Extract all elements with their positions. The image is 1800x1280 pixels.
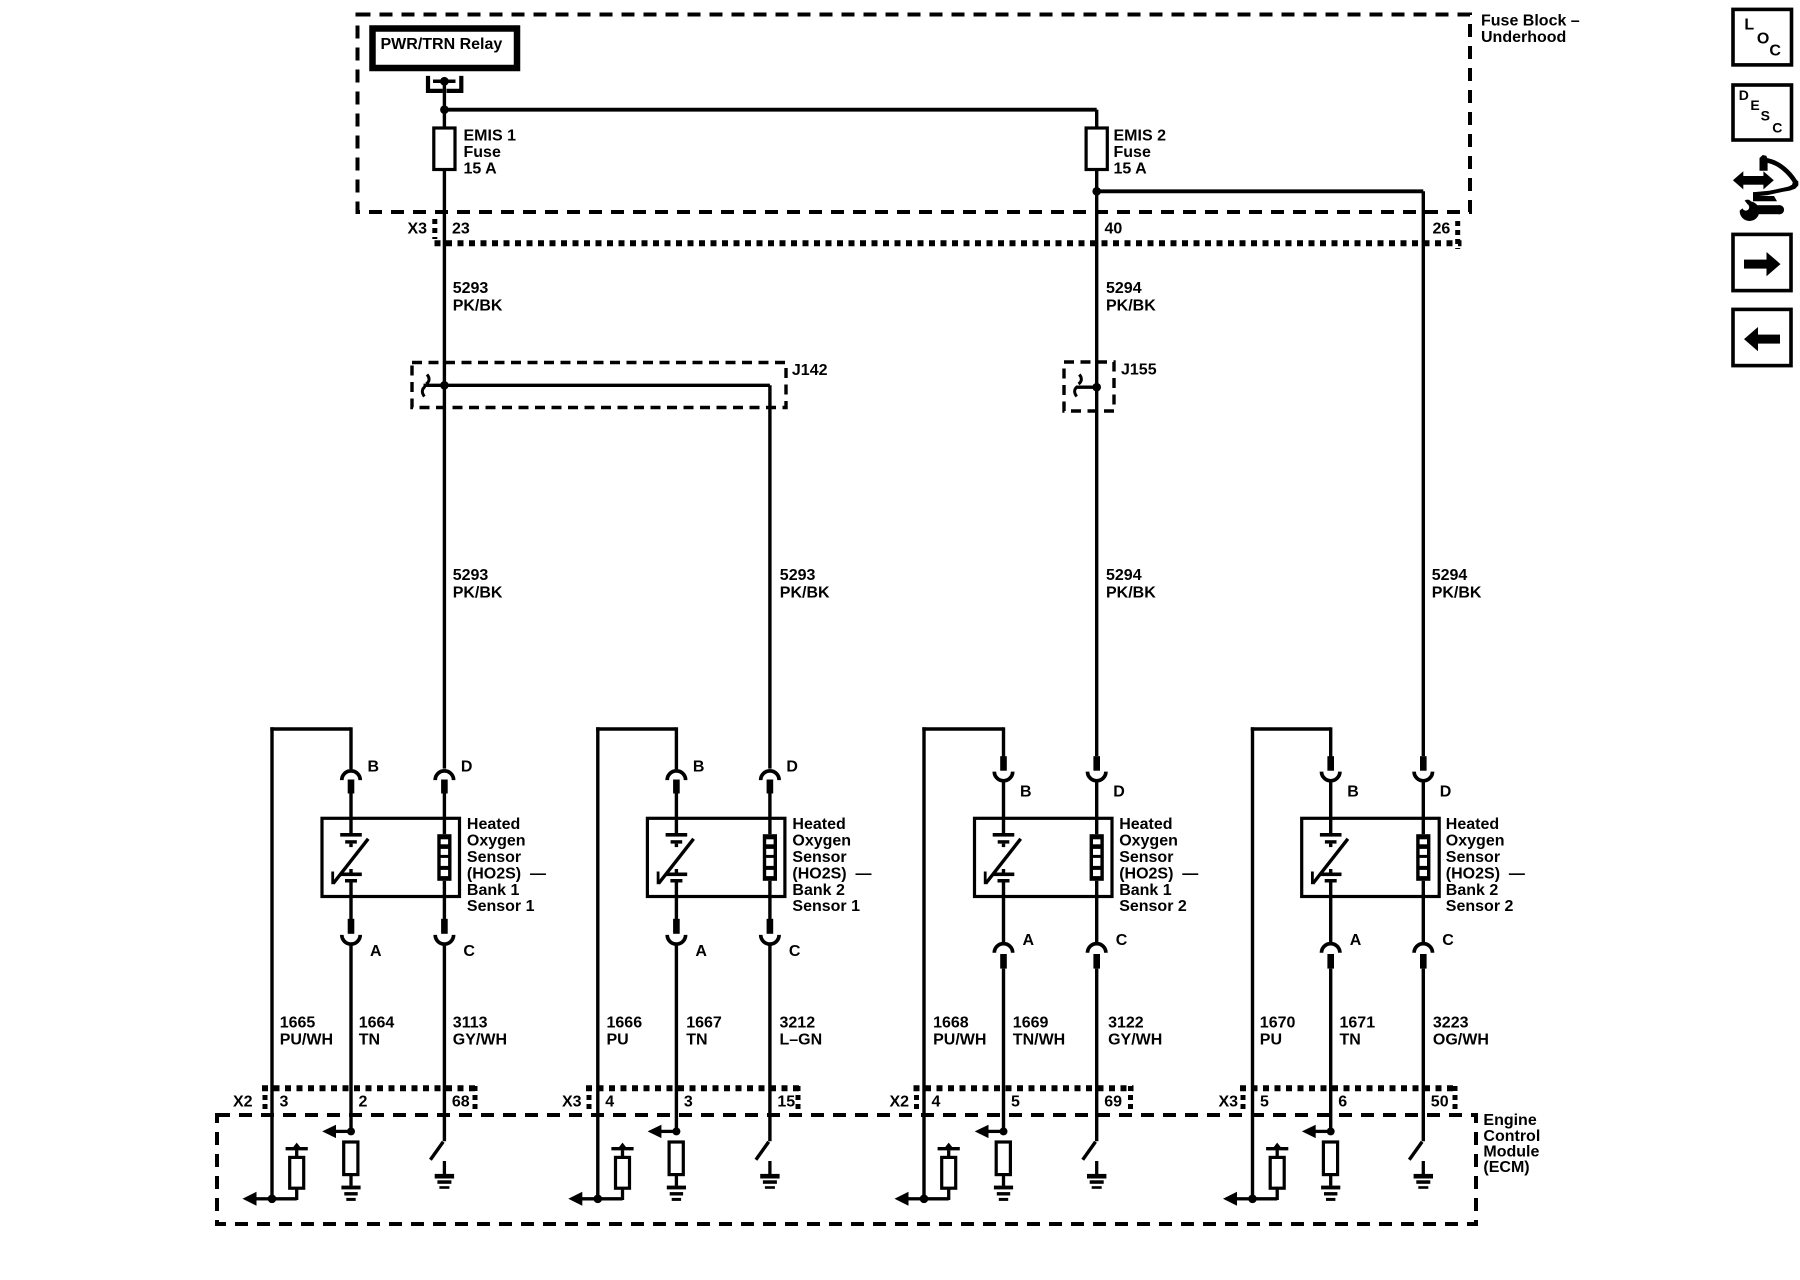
ground symbol 2: [760, 1174, 779, 1179]
svg-text:C: C: [1442, 932, 1454, 949]
svg-text:5: 5: [1011, 1094, 1020, 1111]
svg-text:EMIS 1: EMIS 1: [464, 128, 517, 145]
svg-text:Oxygen: Oxygen: [467, 833, 526, 850]
svg-text:GY/WH: GY/WH: [453, 1031, 507, 1048]
svg-text:Sensor: Sensor: [1446, 849, 1500, 866]
heater element sensor 2: [658, 818, 694, 919]
heater element sensor 3: [985, 818, 1021, 943]
svg-text:(HO2S) —: (HO2S) —: [1119, 865, 1198, 882]
svg-text:(HO2S) —: (HO2S) —: [467, 865, 546, 882]
ground symbol 2: [1087, 1174, 1106, 1179]
wire to pin B sensor 2: [675, 727, 678, 769]
wire branch to X3-26: [1097, 189, 1424, 193]
heater element sensor 4: [1312, 818, 1348, 943]
svg-text:4: 4: [605, 1094, 614, 1111]
svg-text:PK/BK: PK/BK: [453, 584, 503, 601]
svg-text:X2: X2: [233, 1094, 253, 1111]
svg-text:(HO2S) —: (HO2S) —: [1446, 865, 1525, 882]
signal arrow left: [243, 1192, 273, 1206]
connector pin B sensor 2: [667, 771, 685, 818]
svg-text:1668: 1668: [933, 1014, 969, 1031]
relay K PWR/TRN Relay: [373, 29, 518, 69]
svg-text:Fuse Block –: Fuse Block –: [1481, 13, 1580, 30]
svg-text:Bank 1: Bank 1: [1119, 882, 1172, 899]
node ECM junction: [594, 1195, 603, 1204]
svg-text:J155: J155: [1121, 362, 1157, 379]
svg-text:5: 5: [1260, 1094, 1269, 1111]
resistor to ground: [1323, 1142, 1337, 1186]
svg-text:(HO2S) —: (HO2S) —: [792, 865, 871, 882]
splice J142 clip: [422, 375, 429, 397]
connector pin A sensor 3: [994, 944, 1012, 1132]
svg-text:TN: TN: [359, 1031, 380, 1048]
node junction below EMIS 2 fuse: [1092, 187, 1101, 196]
svg-text:Fuse: Fuse: [464, 144, 501, 161]
switch blade: [1409, 1142, 1422, 1160]
sensor box HO2S 3: [975, 818, 1113, 896]
sensor box HO2S 2: [647, 818, 785, 896]
wire to pin B sensor 4: [1329, 727, 1332, 756]
connector separator dots right: [1455, 221, 1460, 249]
icon service hand with wrench: [1733, 155, 1799, 221]
svg-text:5293: 5293: [453, 567, 489, 584]
svg-text:50: 50: [1431, 1094, 1449, 1111]
pull-up resistor: [924, 1143, 960, 1200]
svg-text:Oxygen: Oxygen: [1446, 833, 1505, 850]
svg-text:A: A: [370, 943, 382, 960]
wire splice to junction: [424, 384, 445, 387]
svg-text:B: B: [1347, 784, 1359, 801]
wire J142 branch to sensor 2 pin D: [444, 385, 770, 768]
connector pin B sensor 4: [1322, 756, 1340, 818]
svg-text:Heated: Heated: [792, 816, 845, 833]
connector pin C sensor 3: [1088, 944, 1106, 1142]
wire relay to junction: [443, 85, 446, 110]
svg-text:TN: TN: [686, 1031, 707, 1048]
ground stub: [768, 1161, 771, 1174]
svg-text:C: C: [789, 943, 801, 960]
svg-text:Sensor 2: Sensor 2: [1446, 898, 1514, 915]
wire loop top sensor 3: [922, 727, 1003, 731]
pull-up resistor: [272, 1143, 308, 1200]
svg-text:Heated: Heated: [467, 816, 520, 833]
svg-text:Sensor 1: Sensor 1: [467, 898, 535, 915]
splice J142 box: [412, 363, 786, 408]
wire down X3-26 to sensor 4 pin D: [1422, 191, 1425, 756]
ground stub: [1422, 1161, 1425, 1174]
node ECM junction: [1248, 1195, 1257, 1204]
wire loop left sensor 2 to ECM: [596, 727, 599, 1199]
node J155 junction: [1092, 383, 1101, 392]
signal arrow left: [1223, 1192, 1253, 1206]
svg-text:Control: Control: [1483, 1128, 1540, 1145]
wire loop top sensor 2: [596, 727, 676, 731]
svg-text:Sensor: Sensor: [792, 849, 846, 866]
svg-text:Sensor: Sensor: [467, 849, 521, 866]
splice J155 clip: [1075, 375, 1082, 397]
svg-text:1664: 1664: [359, 1014, 395, 1031]
svg-text:1669: 1669: [1013, 1014, 1049, 1031]
ground symbol 2: [435, 1174, 454, 1179]
svg-text:X2: X2: [890, 1094, 910, 1111]
sensing element sensor 2: [763, 818, 777, 919]
svg-text:6: 6: [1338, 1094, 1347, 1111]
ground symbol: [667, 1186, 686, 1190]
icon DESC box: [1733, 85, 1792, 140]
svg-text:PK/BK: PK/BK: [780, 584, 830, 601]
wire J155 stub: [1077, 386, 1097, 389]
svg-text:PK/BK: PK/BK: [1106, 584, 1156, 601]
svg-text:3: 3: [684, 1094, 693, 1111]
pull-up resistor: [598, 1143, 634, 1200]
svg-text:4: 4: [932, 1094, 941, 1111]
splice J155 box: [1064, 362, 1114, 411]
ECM connector X3 dotted band: [1240, 1086, 1458, 1113]
resistor to ground: [669, 1142, 683, 1186]
svg-text:PK/BK: PK/BK: [1106, 298, 1156, 315]
svg-text:A: A: [1350, 932, 1362, 949]
svg-text:E: E: [1750, 97, 1759, 113]
svg-text:B: B: [368, 759, 380, 776]
wire loop left sensor 1 to ECM: [270, 727, 273, 1199]
svg-text:PU: PU: [607, 1031, 629, 1048]
wire down X3-40 to sensor 3 pin D: [1095, 193, 1098, 756]
svg-text:1666: 1666: [607, 1014, 643, 1031]
ECM connector X3 dotted band: [586, 1086, 801, 1113]
svg-text:Bank 2: Bank 2: [1446, 882, 1499, 899]
relay pin bracket: [428, 76, 461, 91]
connector pin D sensor 4: [1414, 756, 1432, 818]
wire EMIS 2 fuse to junction: [1095, 170, 1098, 192]
sensor box HO2S 4: [1302, 818, 1440, 896]
connector X3 separator dots: [432, 219, 437, 239]
svg-text:Bank 1: Bank 1: [467, 882, 520, 899]
connector pin D sensor 1: [435, 771, 453, 818]
ground symbol 2: [1414, 1174, 1433, 1179]
svg-text:Heated: Heated: [1119, 816, 1172, 833]
ECM connector X2 dotted band: [914, 1086, 1134, 1113]
icon arrow right box: [1733, 234, 1791, 290]
svg-text:PU/WH: PU/WH: [933, 1031, 986, 1048]
svg-text:PU/WH: PU/WH: [280, 1031, 333, 1048]
svg-text:2: 2: [359, 1094, 368, 1111]
switch blade: [430, 1142, 443, 1160]
svg-text:D: D: [1113, 784, 1125, 801]
svg-text:5293: 5293: [780, 567, 816, 584]
resistor to ground: [344, 1142, 358, 1186]
svg-text:TN/WH: TN/WH: [1013, 1031, 1065, 1048]
node ECM junction: [920, 1195, 929, 1204]
svg-text:3212: 3212: [780, 1014, 816, 1031]
svg-text:B: B: [693, 759, 705, 776]
svg-text:PK/BK: PK/BK: [1432, 584, 1482, 601]
svg-text:C: C: [463, 943, 475, 960]
svg-text:D: D: [786, 759, 798, 776]
connector pin D sensor 3: [1088, 756, 1106, 818]
connector pin C sensor 2: [761, 919, 779, 1141]
svg-text:3223: 3223: [1433, 1014, 1469, 1031]
svg-text:5293: 5293: [453, 280, 489, 297]
svg-text:1670: 1670: [1260, 1014, 1296, 1031]
wire busbar down to EMIS 2 fuse: [1095, 110, 1098, 129]
switch blade: [1083, 1142, 1096, 1160]
svg-text:40: 40: [1105, 221, 1123, 238]
sensor box HO2S 1: [322, 818, 460, 896]
svg-text:O: O: [1757, 31, 1769, 48]
svg-text:D: D: [1440, 784, 1452, 801]
icon arrow left box: [1733, 309, 1791, 365]
heater element sensor 1: [333, 818, 369, 919]
svg-text:X3: X3: [408, 221, 428, 238]
ground stub: [1095, 1161, 1098, 1174]
signal arrow left 2: [648, 1125, 681, 1138]
connector pin A sensor 2: [667, 919, 685, 1132]
node J142 junction: [440, 381, 449, 390]
signal arrow left: [895, 1192, 925, 1206]
sensing element sensor 3: [1090, 818, 1104, 943]
svg-text:Oxygen: Oxygen: [792, 833, 851, 850]
svg-text:PU: PU: [1260, 1031, 1282, 1048]
svg-text:Oxygen: Oxygen: [1119, 833, 1178, 850]
svg-text:1667: 1667: [686, 1014, 722, 1031]
sensing element sensor 4: [1416, 818, 1430, 943]
connector pin C sensor 4: [1414, 944, 1432, 1142]
fuse EMIS 2 15A: [1086, 128, 1107, 170]
wire to pin B sensor 1: [349, 727, 352, 769]
svg-text:69: 69: [1104, 1094, 1122, 1111]
svg-text:C: C: [1116, 932, 1128, 949]
svg-text:15 A: 15 A: [464, 161, 498, 178]
connector pin B sensor 3: [994, 756, 1012, 818]
fuse EMIS 1 15A: [434, 128, 455, 170]
svg-text:15 A: 15 A: [1114, 161, 1148, 178]
wire junction to EMIS 1 fuse: [443, 110, 446, 129]
svg-text:A: A: [695, 943, 707, 960]
signal arrow left 2: [322, 1125, 355, 1138]
icon LOC box: [1733, 9, 1792, 65]
node ECM junction: [268, 1195, 277, 1204]
wire loop top sensor 1: [270, 727, 351, 731]
fuse block box (Fuse Block - Underhood): [358, 15, 1471, 213]
svg-text:S: S: [1761, 107, 1770, 123]
svg-text:J142: J142: [792, 362, 828, 379]
sensing element sensor 1: [437, 818, 451, 919]
svg-text:PK/BK: PK/BK: [453, 298, 503, 315]
svg-text:1671: 1671: [1340, 1014, 1376, 1031]
ground symbol: [341, 1186, 360, 1190]
wire busbar to EMIS 2 fuse: [444, 108, 1096, 112]
wire loop top sensor 4: [1251, 727, 1331, 731]
connector pin D sensor 2: [761, 771, 779, 818]
fuse block connector dotted edge: [435, 240, 1462, 246]
pull-up resistor: [1253, 1143, 1289, 1200]
svg-text:X3: X3: [562, 1094, 582, 1111]
svg-text:26: 26: [1433, 221, 1451, 238]
wire to pin B sensor 3: [1002, 727, 1005, 756]
svg-text:3113: 3113: [453, 1014, 488, 1031]
svg-text:A: A: [1023, 932, 1035, 949]
svg-text:C: C: [1772, 120, 1782, 136]
ground symbol: [994, 1186, 1013, 1190]
svg-text:1665: 1665: [280, 1014, 316, 1031]
svg-text:5294: 5294: [1106, 567, 1142, 584]
svg-text:5294: 5294: [1106, 280, 1142, 297]
svg-text:Sensor: Sensor: [1119, 849, 1173, 866]
svg-text:Engine: Engine: [1483, 1112, 1536, 1129]
svg-text:D: D: [1739, 87, 1749, 103]
svg-text:C: C: [1769, 42, 1781, 59]
svg-text:EMIS 2: EMIS 2: [1114, 128, 1167, 145]
svg-text:Fuse: Fuse: [1114, 144, 1151, 161]
svg-text:23: 23: [452, 221, 470, 238]
signal arrow left 2: [1302, 1125, 1335, 1138]
svg-text:L: L: [1744, 16, 1754, 33]
wire EMIS 1 fuse to sensor 1 pin D: [443, 170, 446, 769]
connector pin A sensor 1: [342, 919, 360, 1132]
svg-text:X3: X3: [1219, 1094, 1239, 1111]
svg-text:TN: TN: [1340, 1031, 1361, 1048]
connector pin B sensor 1: [342, 771, 360, 818]
ECM connector X2 dotted band: [262, 1086, 478, 1113]
svg-text:D: D: [461, 759, 473, 776]
svg-text:L–GN: L–GN: [780, 1031, 823, 1048]
svg-text:Underhood: Underhood: [1481, 29, 1566, 46]
ECM box (Engine Control Module): [217, 1115, 1476, 1224]
svg-text:Heated: Heated: [1446, 816, 1499, 833]
resistor to ground: [996, 1142, 1010, 1186]
svg-text:3122: 3122: [1108, 1014, 1144, 1031]
svg-text:3: 3: [280, 1094, 289, 1111]
connector pin C sensor 1: [435, 919, 453, 1141]
signal arrow left 2: [975, 1125, 1008, 1138]
svg-text:5294: 5294: [1432, 567, 1468, 584]
svg-text:Sensor 2: Sensor 2: [1119, 898, 1187, 915]
ground symbol: [1321, 1186, 1340, 1190]
wire loop left sensor 3 to ECM: [922, 727, 925, 1199]
svg-text:68: 68: [452, 1094, 470, 1111]
svg-text:GY/WH: GY/WH: [1108, 1031, 1162, 1048]
svg-text:(ECM): (ECM): [1483, 1159, 1529, 1176]
svg-text:B: B: [1020, 784, 1032, 801]
svg-text:Bank 2: Bank 2: [792, 882, 845, 899]
wire loop left sensor 4 to ECM: [1251, 727, 1254, 1199]
svg-text:Sensor 1: Sensor 1: [792, 898, 860, 915]
signal arrow left: [568, 1192, 598, 1206]
ground stub: [443, 1161, 446, 1174]
svg-text:Module: Module: [1483, 1143, 1539, 1160]
node junction below relay: [440, 105, 449, 114]
connector pin A sensor 4: [1322, 944, 1340, 1132]
svg-text:PWR/TRN Relay: PWR/TRN Relay: [381, 36, 503, 53]
svg-text:15: 15: [777, 1094, 795, 1111]
switch blade: [756, 1142, 769, 1160]
svg-text:OG/WH: OG/WH: [1433, 1031, 1489, 1048]
